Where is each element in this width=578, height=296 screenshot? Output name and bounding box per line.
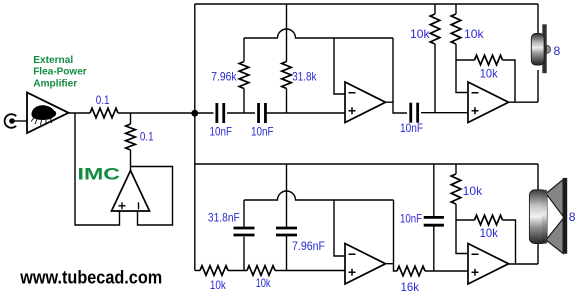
wire R8 to R9 [228, 270, 247, 272]
resistor R1 0.1 (series) [90, 108, 118, 118]
wire R11 to U4 - input [456, 204, 468, 254]
resistor R9 10k [247, 266, 275, 276]
wire to C1 [195, 112, 214, 114]
wire C3 to op-amp U2 + input [421, 112, 468, 114]
svg-text:31.8k: 31.8k [292, 70, 316, 83]
svg-text:10nF: 10nF [400, 122, 423, 135]
svg-text:0.1: 0.1 [140, 131, 154, 144]
wire C4 bottom [243, 237, 245, 271]
wire amp output to IMC + input [75, 113, 120, 225]
resistor R3 7.96k [239, 62, 249, 89]
wire woofer top lead [537, 164, 539, 193]
svg-text:8: 8 [554, 45, 561, 58]
wire R5 bottom to main line [434, 44, 436, 113]
wire R5 top [434, 4, 436, 14]
capacitor C4 31.8nF [234, 228, 255, 235]
speaker woofer 8 ohm [529, 178, 567, 254]
wire to U1 - input [334, 38, 345, 94]
node input junction [191, 110, 198, 117]
wire jack to amplifier input [14, 120, 27, 122]
wire R3 bottom [243, 89, 245, 114]
svg-text:10k: 10k [256, 277, 271, 290]
resistor R11 10k [451, 174, 461, 204]
wire U3 feedback vertical [393, 200, 395, 264]
svg-text:8: 8 [569, 211, 576, 224]
wire C4 top [243, 200, 245, 228]
capacitor C5 7.96nF [276, 228, 297, 235]
svg-text:10nF: 10nF [400, 212, 422, 225]
capacitor C3 10nF [411, 103, 418, 123]
svg-text:10k: 10k [464, 28, 484, 41]
label External Flea-Power Amplifier [33, 54, 86, 89]
wire R10 to op-amp U4 + input [425, 270, 468, 272]
wire C4 top to U3 output (hump over 7.96nF branch) [244, 191, 394, 200]
wire woofer bottom lead [537, 240, 539, 264]
resistor R10 16k [397, 266, 425, 276]
wire tweeter top lead [537, 4, 539, 35]
resistor R5 10k [430, 14, 440, 44]
wire bottom reference rail [195, 163, 538, 165]
svg-text:10k: 10k [480, 68, 498, 81]
svg-text:10k: 10k [210, 279, 226, 292]
wire to R8 [195, 270, 200, 272]
wire to R12 [456, 219, 475, 221]
svg-text:Flea-Power: Flea-Power [33, 66, 86, 78]
wire to R2 [130, 113, 132, 124]
svg-text:Amplifier: Amplifier [33, 77, 77, 89]
amplifier A1 External Flea-Power Amplifier [27, 93, 69, 134]
wire R7 to U2 output [503, 60, 516, 102]
wire U1 feedback vertical [392, 38, 394, 102]
input jack J1 [5, 114, 17, 128]
wire R1 to input node [118, 112, 195, 114]
wire tweeter bottom lead [537, 70, 539, 102]
svg-text:0.1: 0.1 [96, 94, 110, 107]
wire R2 to IMC output [130, 150, 132, 171]
wire IMC feedback loop to - input [131, 167, 173, 226]
wire R6 to U2 - input [456, 44, 468, 93]
wire C6 top [433, 164, 435, 217]
wire R11 top [455, 164, 457, 174]
resistor R6 10k [451, 14, 461, 44]
flea icon [31, 105, 56, 120]
wire U3 output [386, 264, 397, 271]
resistor R2 0.1 (shunt to IMC) [126, 124, 136, 150]
svg-text:10nF: 10nF [251, 125, 274, 138]
wire C5 top [286, 164, 288, 228]
resistor R12 10k (U4 feedback) [475, 215, 503, 225]
wire to U3 - input [334, 200, 345, 256]
wire C1 to C2 [227, 112, 255, 114]
capacitor C2 10nF [259, 103, 266, 123]
resistor R8 10k [200, 266, 228, 276]
wire U4 output to woofer [509, 263, 539, 265]
wire U2 output to tweeter [509, 101, 539, 103]
wire R4 bottom [286, 89, 288, 114]
capacitor C1 10nF [217, 103, 224, 123]
wire R9 to op-amp U3 + input [275, 270, 345, 272]
op-amp U1 (Sallen-Key buffer) [345, 82, 386, 123]
wire R4 top [286, 4, 288, 62]
svg-text:10nF: 10nF [210, 125, 233, 138]
svg-text:IMC: IMC [78, 166, 121, 184]
wire C6 bottom [433, 226, 435, 271]
resistor R4 31.8k [282, 62, 292, 89]
svg-text:External: External [33, 54, 73, 66]
op-amp U-IMC (points up) [112, 171, 150, 212]
wire to R7 [456, 59, 475, 61]
wire top reference rail [195, 3, 538, 5]
svg-text:10k: 10k [410, 28, 430, 41]
wire C5 bottom [286, 235, 288, 271]
wire U1 output [386, 102, 408, 113]
op-amp U3 (Sallen-Key buffer) [345, 244, 386, 285]
svg-text:16k: 16k [401, 281, 420, 294]
svg-text:7.96nF: 7.96nF [292, 240, 325, 253]
op-amp U2 (tweeter driver) [468, 82, 509, 123]
wire R3 top [243, 38, 245, 62]
resistor R7 10k (U2 feedback) [475, 55, 503, 65]
wire C2 to op-amp U1 + input [266, 112, 345, 114]
wire amp output [69, 112, 91, 114]
wire R12 to U4 output [503, 220, 516, 264]
op-amp U4 (woofer driver) [468, 244, 509, 285]
wire input distribution vertical [194, 4, 196, 271]
svg-text:10k: 10k [480, 227, 499, 240]
wire R6 top [455, 4, 457, 14]
svg-text:7.96k: 7.96k [211, 70, 236, 83]
capacitor C6 10nF [424, 217, 444, 225]
svg-text:31.8nF: 31.8nF [208, 212, 240, 225]
svg-text:10k: 10k [463, 185, 483, 198]
svg-text:www.tubecad.com: www.tubecad.com [19, 267, 162, 287]
wire R3 top to U1 output (hump over 31.8k branch) [244, 29, 393, 38]
